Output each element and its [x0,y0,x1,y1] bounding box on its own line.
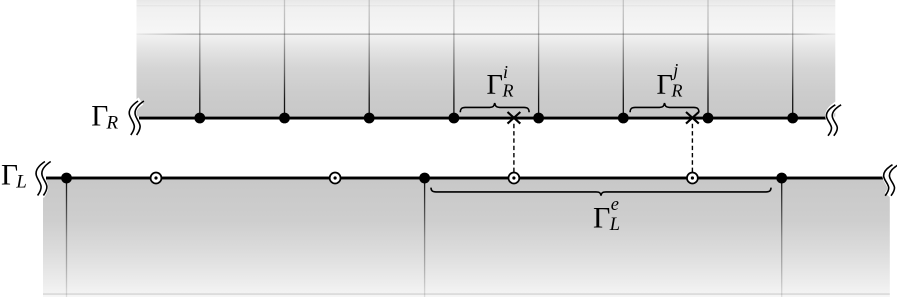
svg-text:j: j [671,60,678,80]
svg-text:Γ: Γ [657,70,673,101]
svg-text:e: e [611,195,619,215]
svg-text:R: R [106,113,119,134]
svg-text:L: L [15,172,27,193]
svg-text:R: R [502,81,514,101]
svg-text:Γ: Γ [487,70,503,101]
svg-text:L: L [609,215,620,235]
svg-text:i: i [503,62,508,82]
svg-text:R: R [671,81,683,101]
svg-text:Γ: Γ [593,202,610,235]
